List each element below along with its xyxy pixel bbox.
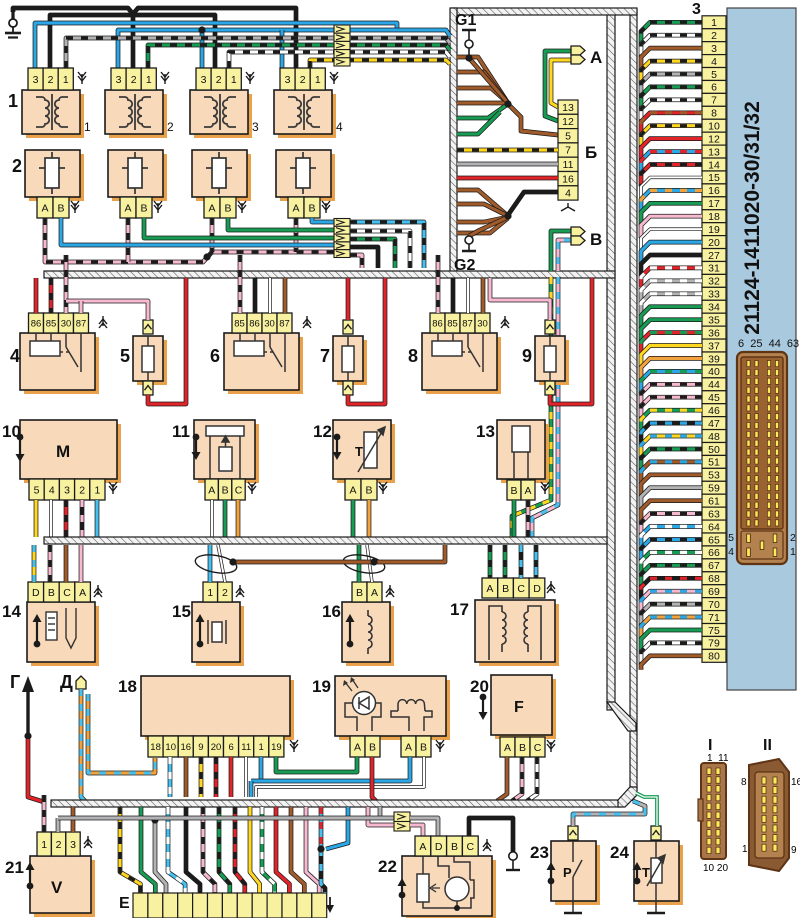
intermediate connector X3 <box>394 812 410 831</box>
wire m18-6 red <box>229 757 234 797</box>
terminal G2 <box>465 236 473 244</box>
svg-text:2: 2 <box>167 120 174 134</box>
wire ignition brown 8 <box>457 218 508 233</box>
svg-text:Г: Г <box>10 672 20 692</box>
wire m20-A brown <box>497 757 507 801</box>
svg-text:T: T <box>355 444 363 459</box>
svg-text:35: 35 <box>708 314 720 326</box>
svg-text:12: 12 <box>562 116 574 128</box>
wire ECU pin 34 <box>641 307 702 329</box>
svg-text:A: A <box>208 202 215 214</box>
svg-text:3: 3 <box>692 1 701 18</box>
wire ignition brown 3 <box>457 88 508 103</box>
wire injector1 B blue <box>61 218 335 245</box>
svg-text:4: 4 <box>10 346 20 366</box>
svg-text:5: 5 <box>565 130 571 142</box>
harness channel right wall <box>630 10 637 801</box>
wire ECU pin 20 <box>641 242 702 264</box>
wire E1 yellow-black <box>120 807 140 893</box>
module 20 mark <box>479 694 488 720</box>
wire ECU pin 4 <box>641 61 702 83</box>
svg-text:B: B <box>519 742 526 754</box>
svg-text:85: 85 <box>46 318 57 329</box>
svg-text:B: B <box>57 202 64 214</box>
shield mark <box>303 316 311 328</box>
wire blue-red to junction <box>319 807 324 849</box>
wire fuse7 bottom red <box>348 278 385 404</box>
svg-text:33: 33 <box>708 289 720 301</box>
intermediate connector X1 <box>334 25 350 66</box>
wire E5 black <box>186 807 200 893</box>
svg-text:30: 30 <box>477 318 488 329</box>
wire m24 green pair <box>636 793 657 826</box>
wire m19-B red to bus3 <box>372 757 377 802</box>
module 17 pins <box>482 578 545 598</box>
wire m14-B pink-black <box>48 545 53 582</box>
svg-text:C: C <box>534 742 542 754</box>
svg-text:5: 5 <box>711 69 717 81</box>
wire ECU pin 36 <box>641 333 702 355</box>
wire E8 red-black <box>235 807 245 893</box>
svg-text:19: 19 <box>312 677 331 696</box>
wire X2 white-black to bus <box>350 231 410 268</box>
fuse 7 upper plug <box>343 320 353 334</box>
svg-text:A: A <box>371 587 378 599</box>
wire coil4 pin3 drop <box>280 30 285 68</box>
wire coil3 pin3 drop <box>200 30 205 68</box>
svg-text:12: 12 <box>313 422 332 441</box>
svg-text:9: 9 <box>198 742 203 753</box>
shield mark <box>246 72 254 84</box>
svg-text:G1: G1 <box>455 12 476 29</box>
svg-text:I: I <box>708 737 712 754</box>
wire ECU pin 64 <box>641 527 702 549</box>
svg-text:67: 67 <box>708 560 720 572</box>
module 24 mark <box>633 862 642 884</box>
svg-text:20: 20 <box>470 677 489 696</box>
module 11 pins <box>205 479 245 500</box>
svg-text:65: 65 <box>708 534 720 546</box>
relay 4 pins <box>29 313 89 333</box>
ignition module compartment <box>452 8 615 277</box>
module 22 mark <box>398 878 407 898</box>
wire m22-C black <box>469 818 513 852</box>
wire m18-11 white <box>244 757 247 797</box>
svg-text:17: 17 <box>708 198 720 210</box>
wire Г red to bus3 <box>28 739 44 802</box>
injector 4 <box>276 150 335 201</box>
wire ECU pin 31 <box>641 268 702 290</box>
wire blue drop to bus3 <box>249 781 254 797</box>
svg-text:T: T <box>642 865 650 880</box>
wire ECU pin 44 <box>641 384 702 406</box>
injector 4 pins <box>288 197 320 218</box>
svg-text:32: 32 <box>708 276 720 288</box>
module 10 pins <box>29 479 105 500</box>
wire m18-20 red-black <box>214 757 219 797</box>
svg-text:5: 5 <box>728 532 734 544</box>
svg-text:14: 14 <box>708 159 720 171</box>
wire m11-A white <box>210 500 213 537</box>
svg-text:71: 71 <box>708 612 720 624</box>
wire ECU pin 66 <box>641 552 702 574</box>
ignition coil 2 <box>105 90 167 138</box>
module 12 pins <box>345 479 377 500</box>
svg-text:B: B <box>224 202 231 214</box>
wire E9 yellow <box>250 807 260 893</box>
svg-text:4: 4 <box>711 56 717 68</box>
wire m20-B pink-black <box>512 757 522 801</box>
svg-text:Б: Б <box>585 143 597 162</box>
svg-text:1: 1 <box>315 74 321 86</box>
junction m22 ground <box>454 905 460 911</box>
svg-text:85: 85 <box>234 318 245 329</box>
svg-text:A: A <box>292 202 299 214</box>
injector 3 <box>192 150 251 201</box>
wire ECU pin 59 <box>641 488 702 510</box>
module 12 mark <box>333 434 342 460</box>
svg-text:2: 2 <box>56 839 62 851</box>
svg-text:75: 75 <box>708 625 720 637</box>
svg-text:В: В <box>590 230 602 249</box>
wire E4 blue-white <box>168 807 185 893</box>
svg-text:9: 9 <box>522 346 532 366</box>
wire X2 pink-black to bus <box>350 255 362 268</box>
svg-text:1: 1 <box>84 120 91 134</box>
shield mark <box>84 836 92 848</box>
shield mark <box>330 72 338 84</box>
wire relay8 30 brown <box>481 278 486 313</box>
wire ignition brown 6 <box>457 204 508 216</box>
shield mark <box>154 201 162 213</box>
svg-text:36: 36 <box>708 327 720 339</box>
wire m21-2 drop <box>56 818 61 832</box>
svg-text:1: 1 <box>41 839 47 851</box>
svg-text:2: 2 <box>216 74 222 86</box>
twisted pair mark 16 <box>342 552 386 576</box>
svg-text:6: 6 <box>711 82 717 94</box>
svg-text:16: 16 <box>322 602 341 621</box>
svg-text:17: 17 <box>450 600 469 619</box>
wire ECU pin 50 <box>641 449 702 471</box>
svg-text:45: 45 <box>708 392 720 404</box>
svg-text:11: 11 <box>172 422 190 441</box>
wire ECU pin 39 <box>641 358 702 380</box>
coil 1 pins <box>28 68 73 90</box>
wire green sensor 1 <box>457 104 508 118</box>
svg-text:13: 13 <box>476 422 495 441</box>
shield mark <box>109 482 117 494</box>
module 16 pins <box>352 582 382 602</box>
svg-text:40: 40 <box>708 366 720 378</box>
module 14 pins <box>28 582 90 602</box>
junction G1 <box>465 54 472 61</box>
channel merge diagonal <box>607 702 636 731</box>
wire ignition feed black 1 <box>13 8 296 68</box>
wire relay6 85 pink-black <box>238 255 243 313</box>
wire ECU pin 13 <box>641 152 702 174</box>
wire m19 second A blue <box>251 757 410 781</box>
wire relay4 86 red <box>34 278 39 313</box>
svg-text:3: 3 <box>116 74 122 86</box>
svg-text:15: 15 <box>708 172 720 184</box>
strip ground fork <box>561 203 575 211</box>
wire ECU pin 63 <box>641 514 702 536</box>
module 21 pins <box>37 832 80 856</box>
svg-text:C: C <box>63 587 71 599</box>
junction screen 16 <box>370 558 377 565</box>
coil 2 pins <box>111 68 156 90</box>
wire connector A yellow <box>551 60 571 107</box>
module 21 mark <box>26 862 35 889</box>
svg-text:86: 86 <box>31 318 42 329</box>
wire ECU pin 51 <box>641 462 702 484</box>
wire ECU pin 8 <box>641 113 702 135</box>
svg-text:23: 23 <box>530 843 549 862</box>
injector 2 <box>108 150 167 201</box>
svg-text:8: 8 <box>408 346 418 366</box>
module 10 mark <box>16 434 25 462</box>
svg-text:Д: Д <box>60 672 73 692</box>
wire connector B green upper <box>551 231 571 271</box>
svg-text:11: 11 <box>563 159 574 171</box>
wire ECU pin 80 <box>641 656 702 670</box>
wire ECU pin 79 <box>641 643 702 665</box>
wire Д pair to bus3 <box>81 689 85 801</box>
wire m18-9 yellow-black <box>199 757 204 797</box>
wire E13 pink <box>306 807 319 893</box>
wire fuse7 top red <box>346 278 351 320</box>
wire junction to G2 <box>469 217 508 236</box>
svg-text:4: 4 <box>336 120 343 134</box>
wire coil4 control yellow-black <box>310 60 450 68</box>
svg-text:B: B <box>222 484 229 496</box>
svg-text:70: 70 <box>708 599 720 611</box>
shield mark <box>322 201 330 213</box>
wire ECU pin 27 <box>641 255 702 277</box>
svg-text:B: B <box>365 484 372 496</box>
svg-text:A: A <box>504 742 511 754</box>
shield mark <box>547 740 555 752</box>
wire relay4 87 pink <box>79 301 84 313</box>
wire relay8 85 black <box>451 278 456 313</box>
svg-text:10 20: 10 20 <box>703 863 728 874</box>
module 23 plug <box>568 826 578 840</box>
coil 4 pins <box>280 68 325 90</box>
svg-text:1: 1 <box>63 74 69 86</box>
svg-text:16: 16 <box>708 185 720 197</box>
coil 3 pins <box>196 68 241 90</box>
compartment top edge <box>452 8 637 15</box>
wire relay8 86 pink-black <box>436 255 441 313</box>
injector 2 pins <box>120 197 152 218</box>
junction pink rail <box>203 253 210 260</box>
svg-text:C: C <box>235 484 243 496</box>
wire coil3 control white-black <box>229 52 450 68</box>
module 20 pins <box>500 737 545 757</box>
wire relay4 30 pink-black <box>64 255 69 313</box>
wire ignition brown 5 <box>457 190 508 216</box>
ground terminal top left <box>5 12 21 38</box>
wire ECU pin 18 <box>641 216 702 238</box>
svg-text:39: 39 <box>708 353 720 365</box>
wire ECU pin 35 <box>641 320 702 342</box>
svg-text:10: 10 <box>165 742 176 753</box>
wire ECU pin 40 <box>641 371 702 393</box>
svg-text:E: E <box>119 895 130 912</box>
svg-text:68: 68 <box>708 573 720 585</box>
svg-text:8: 8 <box>741 777 747 788</box>
svg-text:1: 1 <box>742 844 748 855</box>
svg-text:1: 1 <box>94 484 100 496</box>
wire m14-C brown <box>64 545 69 582</box>
injector 1 pins <box>37 197 69 218</box>
svg-text:86: 86 <box>249 318 260 329</box>
fuse 5 upper plug <box>143 320 153 334</box>
svg-text:A: A <box>405 741 412 753</box>
svg-text:6: 6 <box>228 742 233 753</box>
svg-text:B: B <box>140 202 147 214</box>
svg-text:16: 16 <box>562 173 574 185</box>
strip E arrow <box>326 897 334 913</box>
wire ignition brown 4 <box>457 101 508 106</box>
svg-text:20: 20 <box>211 742 222 753</box>
svg-text:4: 4 <box>49 484 55 496</box>
svg-text:19: 19 <box>271 742 282 753</box>
svg-text:18: 18 <box>150 742 161 753</box>
svg-text:B: B <box>510 485 517 497</box>
wire coil2 control green-black <box>148 45 450 68</box>
svg-text:3: 3 <box>252 120 259 134</box>
svg-text:A: A <box>41 202 48 214</box>
relay 6 pins <box>232 313 292 333</box>
svg-text:B: B <box>369 741 376 753</box>
shield mark <box>379 482 387 494</box>
svg-text:50: 50 <box>708 444 720 456</box>
wire pink connector feed <box>368 807 394 825</box>
svg-text:9: 9 <box>791 845 797 856</box>
wire gray to m22-D <box>410 818 438 836</box>
svg-text:7: 7 <box>320 346 330 366</box>
svg-text:46: 46 <box>708 405 720 417</box>
wire E6 pink-black <box>203 807 215 893</box>
svg-text:21: 21 <box>5 858 24 877</box>
module 13 pins <box>507 480 535 500</box>
wire m19 second B white <box>256 757 424 797</box>
module 15 pins <box>203 582 232 602</box>
svg-text:80: 80 <box>708 651 720 663</box>
svg-text:A: A <box>486 583 493 595</box>
svg-text:C: C <box>517 583 525 595</box>
svg-text:B: B <box>420 741 427 753</box>
svg-text:2: 2 <box>711 30 717 42</box>
harness bus 2 <box>44 537 607 544</box>
junction Г <box>24 732 31 739</box>
svg-text:4: 4 <box>565 188 571 200</box>
harness bus 1 <box>44 271 615 278</box>
svg-text:A: A <box>524 485 531 497</box>
wire ECU pin 33 <box>641 294 702 316</box>
wire ECU pin 10 <box>641 126 702 148</box>
shield mark <box>547 581 555 593</box>
wire injector2 A drop <box>126 218 131 262</box>
svg-text:3: 3 <box>64 484 70 496</box>
svg-text:P: P <box>563 865 572 880</box>
fuse 9 upper plug <box>545 320 555 334</box>
wire m14-D yellow-blue <box>32 545 37 582</box>
wire injector4 A drop <box>294 218 299 252</box>
svg-text:10: 10 <box>708 121 720 133</box>
wire m10-1 cyan <box>95 500 100 537</box>
svg-text:24: 24 <box>610 843 629 862</box>
svg-text:B: B <box>502 583 509 595</box>
svg-text:4: 4 <box>728 546 734 558</box>
wire X2 green-black to bus <box>350 239 395 268</box>
wire E3 gray <box>155 820 166 893</box>
wire m12-A green <box>351 500 356 537</box>
wire ECU pin 14 <box>641 165 702 187</box>
svg-text:63: 63 <box>708 508 720 520</box>
wire m11-B green <box>223 500 228 537</box>
shield mark <box>99 316 107 328</box>
svg-text:44: 44 <box>708 379 720 391</box>
svg-text:7: 7 <box>565 145 571 157</box>
svg-text:2: 2 <box>79 484 85 496</box>
wire m10-4 white <box>49 500 52 537</box>
wire relay6 30 white <box>268 278 271 313</box>
junction screen 15 <box>229 558 236 565</box>
wire ECU pin 70 <box>641 604 702 626</box>
shield mark <box>238 201 246 213</box>
svg-text:B: B <box>48 587 55 599</box>
wire connector A green <box>545 51 571 121</box>
svg-text:79: 79 <box>708 638 720 650</box>
wire ECU pin 37 <box>641 346 702 368</box>
wire coil2 pin2 drop <box>131 14 136 68</box>
wire coil ground blue 1 <box>35 23 397 68</box>
wire ECU pin 45 <box>641 397 702 419</box>
wire ECU pin 68 <box>641 578 702 600</box>
wire ignition brown 2 <box>457 72 508 103</box>
module 18 pins <box>148 736 284 757</box>
svg-text:1: 1 <box>259 742 264 753</box>
ignition coil 1 <box>22 90 84 138</box>
wire ignition brown 1 <box>457 57 508 103</box>
wire gray drop <box>378 807 383 818</box>
svg-text:30: 30 <box>264 318 275 329</box>
wire ECU pin 3 <box>641 48 702 70</box>
svg-text:3: 3 <box>33 74 39 86</box>
svg-text:2: 2 <box>300 74 306 86</box>
svg-text:64: 64 <box>708 521 720 533</box>
svg-text:1: 1 <box>8 91 18 111</box>
shield mark <box>290 740 298 752</box>
wire ECU pin 65 <box>641 540 702 562</box>
wire black-blue to E <box>321 849 325 893</box>
svg-text:53: 53 <box>708 470 720 482</box>
svg-text:1: 1 <box>207 587 213 599</box>
wire pin 4 black <box>508 192 558 215</box>
wire m11-C orange <box>236 500 241 537</box>
wire injector4 B blue <box>312 218 335 222</box>
svg-text:1: 1 <box>146 74 152 86</box>
svg-text:61: 61 <box>708 495 720 507</box>
wire ECU pin 71 <box>641 617 702 639</box>
wire m18-19 to m19-A green <box>276 757 357 772</box>
svg-text:12: 12 <box>708 133 720 145</box>
svg-text:18: 18 <box>118 677 137 696</box>
svg-text:3: 3 <box>201 74 207 86</box>
